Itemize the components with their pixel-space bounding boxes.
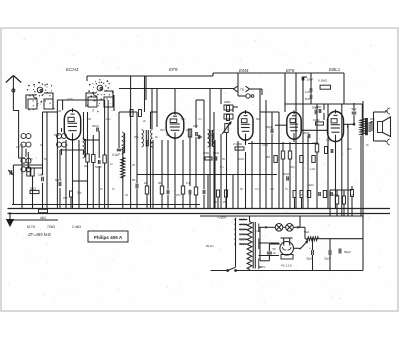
svg-text:EBL1: EBL1 [329, 67, 341, 72]
svg-text:50: 50 [166, 133, 169, 137]
svg-text:110V: 110V [240, 242, 248, 246]
svg-text:+: + [309, 247, 311, 251]
svg-text:6,3V: 6,3V [255, 229, 261, 233]
svg-text:72kΩ: 72kΩ [47, 225, 55, 229]
svg-text:46: 46 [88, 117, 91, 121]
svg-text:25nF: 25nF [315, 105, 322, 109]
svg-text:+F: +F [273, 251, 277, 255]
svg-text:250: 250 [160, 128, 165, 132]
svg-text:1nF: 1nF [305, 90, 310, 94]
svg-text:0.1: 0.1 [220, 165, 224, 169]
svg-text:50n: 50n [181, 117, 186, 121]
svg-text:170V: 170V [239, 223, 247, 227]
svg-text:50μF: 50μF [344, 250, 351, 254]
svg-text:50pF: 50pF [95, 165, 102, 169]
svg-text:EF6: EF6 [286, 68, 295, 73]
svg-text:1M: 1M [270, 187, 275, 191]
svg-text:50 Hz: 50 Hz [206, 244, 214, 248]
svg-text:3-30: 3-30 [67, 97, 73, 101]
svg-text:25n: 25n [106, 117, 111, 121]
svg-text:00: 00 [40, 143, 44, 147]
svg-text:25n: 25n [347, 147, 352, 151]
svg-text:50pF: 50pF [54, 133, 60, 137]
svg-text:140V: 140V [239, 232, 247, 236]
svg-text:150V: 150V [239, 228, 247, 232]
svg-text:220V: 220V [239, 218, 247, 222]
svg-text:ZF=485 kHz: ZF=485 kHz [27, 232, 52, 237]
svg-text:50: 50 [132, 178, 136, 182]
svg-text:EF9: EF9 [169, 67, 178, 72]
svg-text:30: 30 [158, 181, 162, 185]
svg-text:5n: 5n [366, 143, 369, 147]
svg-text:0.2: 0.2 [255, 187, 259, 191]
svg-text:50pF: 50pF [283, 172, 290, 176]
svg-text:2n: 2n [30, 157, 33, 161]
svg-text:4kΩ: 4kΩ [40, 216, 46, 220]
svg-text:50p: 50p [290, 165, 295, 169]
svg-text:4V: 4V [262, 265, 265, 269]
svg-text:8nF: 8nF [305, 97, 310, 101]
svg-text:15nF: 15nF [307, 78, 314, 82]
svg-text:5n: 5n [100, 187, 104, 191]
svg-text:0.1: 0.1 [198, 117, 202, 121]
svg-text:4V 1,1A: 4V 1,1A [281, 264, 292, 268]
svg-text:150k: 150k [333, 193, 340, 197]
svg-text:5kΩ: 5kΩ [30, 187, 36, 191]
svg-text:30: 30 [125, 193, 129, 197]
svg-text:1n: 1n [110, 162, 113, 166]
svg-text:Philips 406 A: Philips 406 A [94, 235, 123, 240]
svg-text:2MΩ: 2MΩ [224, 100, 231, 104]
svg-text:617Ω: 617Ω [27, 225, 36, 229]
svg-text:120V: 120V [239, 237, 247, 241]
svg-text:ECH3: ECH3 [66, 67, 79, 72]
svg-text:2.4kΩ: 2.4kΩ [72, 225, 81, 229]
svg-text:800: 800 [370, 117, 375, 121]
svg-text:2M: 2M [266, 155, 271, 159]
svg-text:50: 50 [240, 187, 244, 191]
svg-text:+285V: +285V [217, 216, 227, 220]
svg-text:50nF: 50nF [213, 151, 219, 155]
svg-text:EM4: EM4 [239, 68, 249, 73]
svg-text:1MΩ: 1MΩ [238, 157, 244, 161]
svg-text:25nF: 25nF [92, 124, 99, 128]
svg-text:0.5M: 0.5M [262, 143, 269, 147]
svg-text:25n: 25n [176, 193, 181, 197]
svg-text:0.1MΩ: 0.1MΩ [318, 79, 328, 83]
svg-text:56: 56 [222, 157, 226, 161]
svg-text:50pF: 50pF [55, 178, 62, 182]
svg-text:00: 00 [20, 143, 24, 147]
svg-text:0.1nF: 0.1nF [112, 153, 120, 157]
svg-text:25nF: 25nF [303, 131, 310, 135]
svg-text:TB: TB [240, 88, 244, 92]
svg-text:14Ω: 14Ω [310, 167, 315, 171]
svg-text:250: 250 [134, 135, 139, 139]
svg-text:50μ: 50μ [77, 191, 82, 195]
svg-text:135: 135 [326, 138, 331, 142]
svg-text:2MΩ: 2MΩ [203, 151, 209, 155]
svg-text:450: 450 [63, 196, 68, 200]
svg-text:5nF: 5nF [352, 107, 357, 111]
svg-text:25: 25 [132, 163, 135, 167]
svg-text:50: 50 [44, 157, 47, 161]
